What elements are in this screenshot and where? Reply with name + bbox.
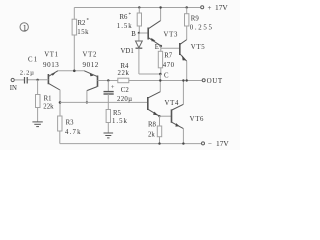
transistor VT3 <box>139 32 148 34</box>
transistor VT4 <box>147 97 149 110</box>
resistor R7 <box>158 51 162 68</box>
wire VT4 emitter to VT6 base <box>158 115 160 117</box>
OUT terminal <box>202 79 205 82</box>
svg-text:R9: R9 <box>191 15 200 22</box>
svg-text:VD1: VD1 <box>121 48 134 55</box>
ground (R1) <box>32 121 42 123</box>
svg-text:VT3: VT3 <box>164 32 179 39</box>
resistor R6 <box>138 6 140 8</box>
svg-text:22k: 22k <box>43 104 54 111</box>
svg-text:R2: R2 <box>78 20 87 27</box>
transistor VT5 <box>179 43 181 55</box>
svg-text:VT5: VT5 <box>191 44 206 51</box>
svg-text:−: − <box>208 140 212 148</box>
resistor R9 <box>186 6 188 8</box>
svg-text:15k: 15k <box>77 29 89 36</box>
svg-text:R6: R6 <box>120 14 129 21</box>
-17V terminal <box>202 142 205 145</box>
svg-text:VT6: VT6 <box>190 116 205 123</box>
resistor R8 <box>159 116 161 126</box>
resistor R1 <box>37 80 39 95</box>
svg-text:0.255: 0.255 <box>190 24 214 31</box>
wire VT1 collector down <box>59 90 61 116</box>
svg-text:*: * <box>129 13 132 18</box>
svg-text:VT2: VT2 <box>83 52 98 59</box>
svg-text:B: B <box>131 31 136 38</box>
svg-text:R7: R7 <box>164 53 173 60</box>
capacitor C2 <box>107 81 109 92</box>
svg-text:2.2µ: 2.2µ <box>20 70 35 77</box>
svg-text:+: + <box>111 84 115 91</box>
wire E to VT5 base <box>160 46 162 52</box>
svg-text:2k: 2k <box>148 132 155 139</box>
resistor R5 <box>106 110 110 123</box>
svg-text:220µ: 220µ <box>117 96 132 103</box>
diode VD1 <box>138 33 140 41</box>
+17V terminal <box>201 6 204 9</box>
transistor VT1 <box>47 74 49 84</box>
svg-text:470: 470 <box>163 62 175 69</box>
wire IN to base <box>27 79 48 81</box>
svg-text:C2: C2 <box>121 87 130 94</box>
svg-text:1: 1 <box>23 24 27 33</box>
svg-text:9012: 9012 <box>83 61 99 69</box>
svg-text:17V: 17V <box>215 3 228 12</box>
svg-text:22k: 22k <box>118 70 130 77</box>
-17V rail <box>60 143 202 145</box>
svg-text:VT4: VT4 <box>165 100 180 107</box>
circled 1 <box>20 23 28 31</box>
node C <box>159 73 162 76</box>
+17V rail <box>74 7 200 9</box>
svg-text:C: C <box>164 73 169 80</box>
svg-text:R5: R5 <box>113 110 122 117</box>
svg-text:VT1: VT1 <box>44 52 59 59</box>
svg-text:R4: R4 <box>121 63 130 70</box>
svg-text:R8: R8 <box>148 122 157 129</box>
node B <box>138 32 140 34</box>
resistor R4 <box>118 78 129 83</box>
capacitor C1 <box>24 77 26 84</box>
svg-text:1.5k: 1.5k <box>112 118 128 125</box>
ground (R5) <box>104 132 114 134</box>
IN terminal <box>11 78 14 81</box>
svg-text:17V: 17V <box>216 139 229 148</box>
svg-text:4.7k: 4.7k <box>65 129 82 136</box>
wire VT2 collector <box>86 90 88 102</box>
emitter bus <box>58 70 85 72</box>
svg-text:1.5k: 1.5k <box>117 23 133 30</box>
transistor VT2 <box>97 76 99 87</box>
svg-text:9013: 9013 <box>43 61 59 69</box>
wire collector bus to VT4 base <box>60 101 148 103</box>
svg-text:R3: R3 <box>66 120 75 127</box>
svg-text:+: + <box>208 4 212 12</box>
svg-text:C1: C1 <box>28 56 38 63</box>
resistor R3 <box>58 116 62 131</box>
svg-text:E: E <box>155 44 159 51</box>
svg-text:IN: IN <box>10 85 17 92</box>
feedback bus / output line <box>98 80 118 82</box>
svg-text:*: * <box>87 19 90 24</box>
svg-text:R1: R1 <box>44 96 52 103</box>
svg-text:OUT: OUT <box>207 77 223 85</box>
resistor R2 <box>73 8 75 20</box>
transistor VT6 <box>171 109 173 122</box>
